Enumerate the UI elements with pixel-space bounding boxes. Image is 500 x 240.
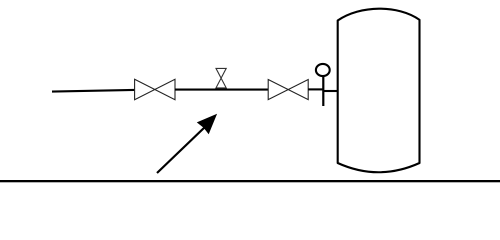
annotation arrow: head <box>197 114 217 135</box>
instrument I1: bubble <box>316 64 330 76</box>
bottom border line <box>0 180 500 182</box>
valve V1 (gate valve bowtie) <box>135 79 175 99</box>
wire: inlet pipe (left segment) <box>52 90 135 92</box>
annotation arrow: shaft <box>157 127 206 174</box>
valve V2 (gate valve bowtie) <box>268 80 308 100</box>
wire: pipe from V2 to instrument stem <box>308 88 324 90</box>
wire: pipe from instrument stem to tank <box>323 90 339 92</box>
tank T1 (vessel) <box>338 9 420 173</box>
valve V3 (small vertical hourglass vent valve on line) <box>216 68 226 88</box>
wire: pipe between V1 and V2 <box>175 89 268 91</box>
instrument I1: stem <box>322 76 324 107</box>
